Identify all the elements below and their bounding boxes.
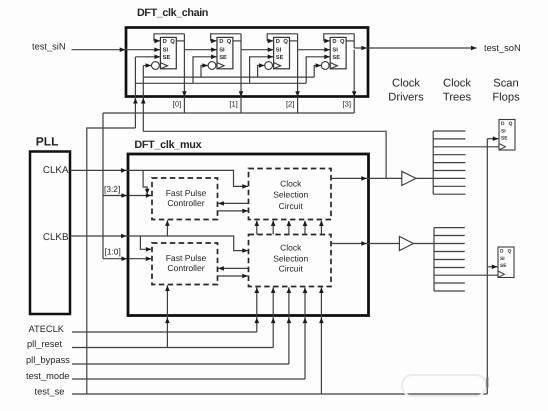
- wire FPC1 to CSC1: [218, 209, 249, 214]
- svg-text:SE: SE: [163, 54, 171, 61]
- svg-text:Q: Q: [509, 121, 513, 127]
- wire SE tap to FF4: [306, 55, 330, 84]
- label Fast Pulse Controller 1: [166, 188, 207, 208]
- wire SE tap to FF2: [193, 55, 217, 84]
- label chain bit [0]: [173, 100, 181, 109]
- label PLL: [36, 135, 59, 149]
- wire test_mode: [72, 287, 307, 379]
- flip-flop FF2 box: [217, 37, 233, 68]
- svg-text:[1]: [1]: [229, 100, 237, 109]
- wire clock riser into chain + FF1 clock: [141, 63, 151, 131]
- svg-text:test_soN: test_soN: [484, 43, 521, 53]
- wire [1:0] into FPC2: [103, 256, 152, 261]
- svg-text:[1:0]: [1:0]: [105, 246, 121, 256]
- label Clock Selection Circuit 2: [273, 242, 308, 273]
- svg-text:Controller: Controller: [167, 198, 204, 208]
- svg-text:Trees: Trees: [443, 92, 472, 104]
- svg-text:CLKB: CLKB: [43, 232, 69, 243]
- wire CSC1 to FPC1 feedback: [218, 201, 248, 206]
- label [3:2]: [104, 184, 120, 194]
- flip-flop FF4 clock edge triangle: [330, 63, 337, 69]
- wire CSC2 to FPC2 feedback: [218, 266, 248, 271]
- wire test_se riser to scan flops: [486, 139, 488, 394]
- flip-flop FF3 clock edge triangle: [274, 63, 281, 69]
- wire pll_reset branch to FPC2: [165, 285, 170, 347]
- svg-text:SI: SI: [163, 47, 169, 54]
- label test_se: [35, 387, 65, 397]
- flip-flop FF4 box: [330, 37, 346, 68]
- wire test_se riser into mux: [319, 287, 324, 394]
- label Fast Pulse Controller 2: [166, 253, 207, 273]
- svg-text:[3:2]: [3:2]: [104, 184, 120, 194]
- wire FF1 Q feedback to D: [154, 34, 184, 43]
- block Clock Selection Circuit 2 (dashed): [249, 235, 332, 287]
- wire CSC2 output to clock driver 2: [331, 241, 399, 246]
- svg-text:PLL: PLL: [36, 135, 59, 149]
- svg-text:D: D: [332, 39, 336, 45]
- wire ATECLK: [72, 287, 259, 332]
- wire CLKA from PLL to CSC1: [70, 168, 248, 189]
- scan flop 2: [498, 247, 514, 278]
- svg-text:DFT_clk_chain: DFT_clk_chain: [137, 7, 208, 19]
- svg-text:Q: Q: [170, 38, 175, 45]
- pin CLKB label: [43, 232, 69, 243]
- label chain bit [2]: [286, 100, 294, 109]
- wire SE rail inside chain: [135, 82, 306, 84]
- svg-text:test_se: test_se: [35, 387, 65, 397]
- wire SE tap to FF3: [250, 55, 274, 84]
- svg-text:Clock: Clock: [280, 242, 302, 252]
- svg-text:SI: SI: [219, 47, 225, 54]
- wire clock rail inside chain: [143, 76, 314, 78]
- svg-text:Circuit: Circuit: [279, 264, 304, 274]
- wire CLKB from PLL to CSC2: [70, 234, 248, 253]
- wire CLKB branch into FPC2: [140, 236, 151, 252]
- svg-text:Q: Q: [340, 38, 345, 45]
- wire test_se to scan flop 2 SE: [487, 265, 497, 270]
- buffer clock driver 2: [399, 236, 413, 250]
- wire driver2 to tree2: [413, 243, 434, 245]
- clock tree 2: [434, 228, 498, 291]
- label Clock Trees: [443, 78, 472, 104]
- svg-text:Scan: Scan: [493, 78, 519, 90]
- svg-text:SI: SI: [501, 129, 506, 135]
- wire chain output bit [3] drop: [352, 50, 357, 113]
- svg-text:SI: SI: [276, 47, 282, 54]
- wire test_se to scan flop 1 SE: [487, 136, 498, 141]
- flip-flop FF2 clock edge triangle: [217, 63, 224, 69]
- svg-text:Q: Q: [508, 249, 512, 255]
- svg-text:SE: SE: [332, 54, 340, 61]
- wire FF4 Q to test_soN exit: [354, 34, 368, 51]
- block DFT_clk_mux box: [128, 154, 369, 316]
- wire test_se riser to chain: [87, 128, 136, 394]
- svg-text:test_siN: test_siN: [32, 41, 66, 51]
- svg-text:D: D: [500, 249, 504, 255]
- net test_soN label: [484, 43, 521, 53]
- svg-text:D: D: [276, 39, 280, 45]
- flip-flop FF3 pin labels D Q SI SE: [276, 38, 289, 61]
- svg-text:SI: SI: [500, 256, 505, 262]
- flip-flop FF1 clock bubble: [152, 62, 160, 70]
- svg-text:Clock: Clock: [443, 78, 471, 90]
- wire CLKB to FPC1 bottom: [165, 220, 170, 236]
- clock tree 1: [433, 131, 499, 194]
- block PLL box: [30, 152, 70, 315]
- block DFT_clk_chain box: [126, 28, 368, 97]
- flip-flop FF3 box: [274, 37, 290, 68]
- flip-flop FF1 box: [160, 37, 176, 68]
- wire FF2 Q feedback to D: [211, 34, 241, 43]
- svg-text:[0]: [0]: [173, 100, 181, 109]
- wire test_siN into chain: [72, 47, 161, 52]
- svg-text:SE: SE: [219, 54, 227, 61]
- svg-text:Circuit: Circuit: [279, 201, 304, 211]
- wire test_se: [72, 393, 487, 395]
- label chain bit [3]: [343, 100, 351, 109]
- svg-text:D: D: [163, 39, 167, 45]
- wire chain output bit [1] drop: [239, 50, 244, 113]
- flip-flop FF3 clock bubble: [265, 62, 273, 70]
- svg-text:Flops: Flops: [492, 92, 520, 104]
- wire driver1 to tree1: [416, 177, 433, 179]
- svg-text:Clock: Clock: [280, 178, 302, 188]
- svg-text:test_mode: test_mode: [26, 371, 69, 381]
- wire FF3 Q feedback to D: [267, 34, 297, 43]
- label pll_bypass: [26, 355, 70, 365]
- flip-flop FF4 pin labels D Q SI SE: [332, 38, 345, 61]
- svg-text:pll_bypass: pll_bypass: [26, 355, 70, 365]
- svg-text:SE: SE: [276, 54, 284, 61]
- label chain bit [1]: [229, 100, 237, 109]
- svg-text:Fast Pulse: Fast Pulse: [166, 253, 207, 263]
- wire test_soN: [368, 46, 477, 51]
- wire [3:2] into FPC1: [103, 193, 152, 198]
- wire scan-enable riser into chain + FF1 SE: [133, 55, 160, 129]
- label test_mode: [26, 371, 69, 381]
- svg-text:SE: SE: [501, 136, 508, 142]
- svg-text:CLKA: CLKA: [43, 165, 69, 176]
- wire clock tap to FF4: [314, 63, 321, 77]
- wire clock tap to FF2: [201, 63, 208, 77]
- svg-text:Selection: Selection: [273, 190, 308, 200]
- svg-text:pll_reset: pll_reset: [27, 339, 63, 349]
- label Clock Drivers: [388, 78, 424, 104]
- flip-flop FF1 clock edge triangle: [160, 63, 167, 69]
- wire FF1 Q to FF2 SI: [184, 34, 217, 52]
- wire FPC2 to CSC2: [218, 274, 249, 279]
- decor: [402, 375, 487, 396]
- svg-text:[2]: [2]: [286, 100, 294, 109]
- label DFT_clk_chain: [137, 7, 208, 19]
- wire CSC1 output to clock driver 1: [331, 176, 402, 181]
- wire chain output bit [2] drop: [295, 50, 300, 113]
- flip-flop FF4 clock bubble: [321, 62, 329, 70]
- wire control arrows CSC2 to CSC1: [255, 220, 324, 234]
- wire chain output bit [0] drop: [182, 50, 187, 113]
- flip-flop FF2 pin labels D Q SI SE: [219, 38, 232, 61]
- block Fast Pulse Controller 2 (dashed): [152, 243, 218, 285]
- wire pll_reset: [72, 287, 276, 347]
- svg-text:D: D: [219, 39, 223, 45]
- label pll_reset: [27, 339, 63, 349]
- svg-text:ATECLK: ATECLK: [29, 324, 65, 334]
- svg-text:Q: Q: [227, 38, 232, 45]
- block Fast Pulse Controller 1 (dashed): [152, 178, 218, 220]
- svg-text:Clock: Clock: [392, 78, 420, 90]
- svg-text:SI: SI: [332, 47, 338, 54]
- buffer clock driver 1: [402, 171, 416, 185]
- wire functional clock feedback to chain: [143, 131, 386, 178]
- svg-text:Fast Pulse: Fast Pulse: [166, 188, 207, 198]
- wire chain bits bus: [103, 112, 354, 114]
- label ATECLK: [29, 324, 65, 334]
- svg-text:DFT_clk_mux: DFT_clk_mux: [134, 139, 201, 151]
- scan flop 1: [499, 120, 515, 151]
- wire FF2 Q to FF3 SI: [241, 34, 274, 52]
- label [1:0]: [105, 246, 121, 256]
- block Clock Selection Circuit 1 (dashed): [249, 169, 332, 220]
- wire bus down-feed to FPC inputs: [102, 113, 104, 259]
- wire clock tap to FF3: [258, 63, 265, 77]
- label DFT_clk_mux: [134, 139, 201, 151]
- svg-text:Q: Q: [283, 38, 288, 45]
- label Clock Selection Circuit 1: [273, 178, 308, 211]
- wire CLKA branch into FPC1: [143, 170, 149, 194]
- svg-text:D: D: [501, 121, 505, 127]
- svg-text:Drivers: Drivers: [388, 92, 424, 104]
- wire pll_bypass: [72, 287, 291, 364]
- svg-text:Selection: Selection: [273, 253, 308, 263]
- svg-text:SE: SE: [500, 263, 507, 269]
- flip-flop FF1 pin labels D Q SI SE: [163, 38, 176, 61]
- label Scan Flops: [492, 78, 520, 104]
- pin CLKA label: [43, 165, 69, 176]
- svg-text:Controller: Controller: [167, 263, 204, 273]
- svg-text:[3]: [3]: [343, 100, 351, 109]
- wire FF4 Q feedback to D: [324, 34, 354, 43]
- wire FF3 Q to FF4 SI: [298, 34, 331, 52]
- net test_siN label: [32, 41, 66, 51]
- flip-flop FF2 clock bubble: [208, 62, 216, 70]
